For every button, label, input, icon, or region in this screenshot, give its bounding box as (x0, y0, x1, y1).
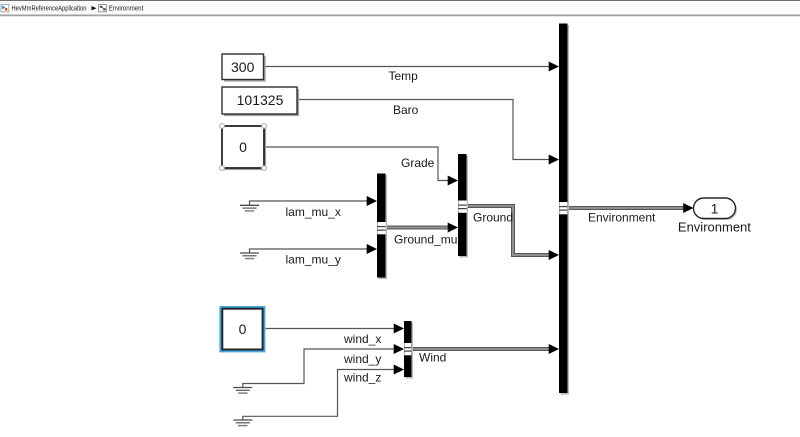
svg-text:0: 0 (239, 139, 247, 155)
svg-text:Environment: Environment (109, 4, 144, 13)
breadcrumb bar (0, 0, 800, 16)
svg-text:Environment: Environment (588, 211, 656, 225)
svg-text:Grade: Grade (401, 156, 435, 170)
mux M4 (Environment mux) (559, 24, 569, 395)
svg-text:1: 1 (711, 200, 719, 216)
svg-text:lam_mu_x: lam_mu_x (286, 205, 341, 219)
mux M2 (Ground mux) (458, 154, 468, 258)
wire Grade (264, 147, 458, 186)
svg-text:wind_x: wind_x (343, 332, 381, 346)
outport 1 (Environment) (694, 198, 738, 220)
mux M1 (Ground_mu mux) (377, 174, 387, 280)
model icon (1, 4, 9, 11)
ground G3 (wind_y) (233, 388, 252, 394)
ground G4 (wind_z) (233, 420, 252, 426)
constant block 101325 (Baro) (222, 87, 299, 116)
mux M3 (Wind mux) (404, 321, 413, 379)
ground G2 (lam_mu_y) (240, 253, 259, 259)
breadcrumb separator (92, 6, 97, 10)
constant block 300 (Temp) (222, 54, 266, 82)
wire wind_y (243, 344, 404, 388)
svg-text:Wind: Wind (419, 351, 446, 365)
svg-text:Ground: Ground (473, 211, 513, 225)
wire Wind (wide) (412, 344, 560, 354)
subsystem icon (99, 4, 107, 11)
svg-text:0: 0 (239, 321, 247, 337)
constant block 0 (wind_x, selected) (219, 306, 265, 352)
wire lam_mu_y (250, 244, 378, 254)
wire Ground (wide) (467, 206, 559, 260)
wire Environment (wide) (568, 203, 694, 213)
svg-text:Temp: Temp (389, 69, 419, 83)
wire Temp (264, 62, 560, 72)
svg-text:300: 300 (231, 59, 255, 75)
wire lam_mu_x (250, 196, 378, 206)
svg-text:Ground_mu: Ground_mu (394, 233, 457, 247)
wire wind_z (243, 365, 404, 421)
wire Baro (297, 100, 559, 165)
ground G1 (lam_mu_x) (240, 205, 259, 211)
svg-text:wind_y: wind_y (343, 352, 381, 366)
svg-text:101325: 101325 (237, 92, 284, 108)
svg-text:Baro: Baro (393, 103, 419, 117)
svg-text:wind_z: wind_z (343, 370, 381, 384)
svg-text:Environment: Environment (678, 220, 751, 235)
wire Ground_mu (wide) (386, 223, 459, 233)
svg-text:HevMmReferenceApplication: HevMmReferenceApplication (12, 4, 87, 13)
svg-text:lam_mu_y: lam_mu_y (286, 252, 341, 266)
wire wind_x (266, 324, 405, 334)
constant block 0 (Grade) (220, 124, 267, 171)
